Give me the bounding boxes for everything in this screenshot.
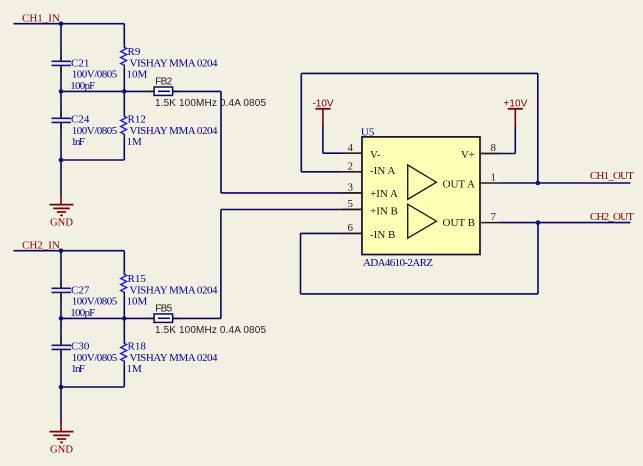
capacitor C27 bbox=[52, 287, 72, 289]
svg-text:1: 1 bbox=[491, 171, 497, 183]
svg-text:OUT A: OUT A bbox=[443, 178, 476, 190]
ground bbox=[60, 421, 62, 431]
svg-text:VISHAY MMA 0204: VISHAY MMA 0204 bbox=[130, 57, 219, 69]
svg-text:2: 2 bbox=[348, 160, 354, 172]
svg-text:-IN B: -IN B bbox=[370, 229, 395, 241]
ground bbox=[60, 194, 62, 204]
svg-text:+10V: +10V bbox=[503, 98, 527, 109]
resistor R9 bbox=[123, 24, 125, 47]
wire from pin6 bbox=[301, 232, 363, 234]
svg-text:-10V: -10V bbox=[312, 98, 333, 109]
svg-text:V+: V+ bbox=[461, 149, 475, 161]
svg-text:1M: 1M bbox=[127, 363, 143, 375]
junction bbox=[59, 316, 64, 321]
wire CH1_IN horizontal bbox=[14, 23, 125, 25]
junction bbox=[122, 316, 127, 321]
pin 1 OUT A bbox=[480, 182, 500, 184]
wire bbox=[60, 66, 62, 91]
svg-text:5: 5 bbox=[348, 198, 354, 210]
wire +10V to pin8 bbox=[514, 126, 516, 154]
svg-text:100V/0805: 100V/0805 bbox=[72, 69, 118, 81]
wire feedback A top bbox=[301, 72, 538, 74]
wire bbox=[60, 91, 62, 117]
svg-text:100V/0805: 100V/0805 bbox=[72, 296, 118, 308]
pin 6 -IN B bbox=[342, 232, 362, 234]
junction bbox=[122, 89, 127, 94]
svg-text:8: 8 bbox=[491, 142, 497, 154]
wire feedback B bottom bbox=[301, 293, 539, 295]
svg-text:+IN A: +IN A bbox=[370, 188, 398, 200]
pin 3 +IN A bbox=[342, 192, 362, 194]
svg-text:ADA4610-2ARZ: ADA4610-2ARZ bbox=[363, 257, 433, 269]
svg-text:C27: C27 bbox=[71, 284, 90, 296]
svg-text:FB2: FB2 bbox=[155, 76, 172, 87]
junction bbox=[59, 158, 64, 163]
svg-text:CH2_OUT: CH2_OUT bbox=[590, 211, 634, 223]
wire to gnd bbox=[60, 387, 62, 422]
capacitor C21 bbox=[52, 60, 72, 62]
pin 2 -IN A bbox=[342, 171, 362, 173]
wire feedback B right vertical bbox=[537, 223, 539, 294]
resistor R15 bbox=[123, 251, 125, 274]
wire feedback B left vertical bbox=[300, 233, 302, 294]
svg-text:10M: 10M bbox=[127, 296, 148, 308]
pin 5 +IN B bbox=[342, 208, 362, 210]
svg-text:100V/0805: 100V/0805 bbox=[72, 125, 118, 137]
svg-text:C30: C30 bbox=[71, 341, 90, 353]
junction bbox=[59, 21, 64, 26]
svg-text:CH1_OUT: CH1_OUT bbox=[590, 170, 634, 182]
pin 4 V- bbox=[342, 152, 362, 154]
svg-text:1nF: 1nF bbox=[71, 363, 85, 375]
junction bbox=[536, 181, 541, 186]
op-amp triangle A bbox=[408, 165, 437, 199]
wire bbox=[60, 350, 62, 387]
wire feedback A right vertical bbox=[537, 73, 539, 183]
pin 8 V+ bbox=[480, 153, 500, 155]
resistor R18 bbox=[123, 318, 125, 343]
svg-text:6: 6 bbox=[348, 222, 354, 234]
svg-text:7: 7 bbox=[491, 211, 497, 223]
wire bbox=[60, 293, 62, 318]
svg-text:-IN A: -IN A bbox=[370, 165, 395, 177]
svg-text:3: 3 bbox=[348, 182, 354, 194]
wire to gnd bbox=[60, 160, 62, 195]
wire OUT A to CH1_OUT bbox=[500, 182, 630, 184]
svg-text:1.5K 100MHz 0.4A 0805: 1.5K 100MHz 0.4A 0805 bbox=[155, 325, 266, 336]
pin 7 OUT B bbox=[480, 222, 500, 224]
svg-text:R18: R18 bbox=[128, 341, 147, 353]
wire bbox=[60, 318, 62, 344]
svg-text:4: 4 bbox=[348, 142, 354, 154]
wire to pin2 bbox=[301, 171, 362, 173]
op-amp triangle B bbox=[408, 204, 437, 238]
svg-text:CH2_IN: CH2_IN bbox=[22, 240, 60, 252]
wire bottom row bbox=[61, 386, 124, 388]
junction bbox=[59, 385, 64, 390]
junction bbox=[59, 89, 64, 94]
svg-text:VISHAY MMA 0204: VISHAY MMA 0204 bbox=[130, 125, 219, 137]
svg-text:+IN B: +IN B bbox=[370, 206, 398, 218]
junction bbox=[536, 220, 541, 225]
junction bbox=[59, 248, 64, 253]
wire fb out bbox=[173, 317, 221, 319]
wire -10V to pin4 bbox=[322, 126, 324, 153]
svg-text:100pF: 100pF bbox=[70, 80, 95, 92]
wire bbox=[60, 24, 62, 61]
wire fb2 to pin3 bbox=[220, 91, 222, 192]
wire bbox=[60, 251, 62, 288]
wire node row1 bbox=[61, 317, 154, 319]
wire CH2_IN horizontal bbox=[14, 250, 125, 252]
svg-text:VISHAY MMA 0204: VISHAY MMA 0204 bbox=[130, 284, 219, 296]
wire OUT B to CH2_OUT bbox=[500, 222, 630, 224]
svg-text:100V/0805: 100V/0805 bbox=[72, 352, 118, 364]
svg-text:100pF: 100pF bbox=[70, 307, 95, 319]
capacitor C30 bbox=[52, 344, 72, 346]
wire feedback A left vertical bbox=[300, 73, 302, 171]
svg-text:VISHAY MMA 0204: VISHAY MMA 0204 bbox=[130, 352, 219, 364]
svg-text:1.5K 100MHz 0.4A 0805: 1.5K 100MHz 0.4A 0805 bbox=[155, 98, 266, 109]
svg-text:C24: C24 bbox=[71, 114, 90, 126]
svg-text:FB5: FB5 bbox=[155, 303, 172, 314]
svg-text:C21: C21 bbox=[71, 57, 89, 69]
wire bottom row bbox=[61, 159, 124, 161]
svg-text:GND: GND bbox=[50, 445, 73, 456]
svg-text:10M: 10M bbox=[127, 69, 148, 81]
capacitor C24 bbox=[52, 117, 72, 119]
svg-text:V-: V- bbox=[370, 149, 381, 161]
svg-text:R12: R12 bbox=[128, 114, 146, 126]
wire node row1 bbox=[61, 90, 154, 92]
svg-text:1M: 1M bbox=[127, 136, 143, 148]
wire fb5 to pin5 bbox=[220, 210, 222, 319]
svg-text:1nF: 1nF bbox=[71, 136, 85, 148]
svg-text:CH1_IN: CH1_IN bbox=[22, 13, 60, 25]
svg-text:GND: GND bbox=[50, 218, 73, 229]
svg-text:OUT B: OUT B bbox=[443, 217, 476, 229]
wire fb out bbox=[173, 90, 221, 92]
wire bbox=[60, 123, 62, 160]
resistor R12 bbox=[123, 91, 125, 116]
